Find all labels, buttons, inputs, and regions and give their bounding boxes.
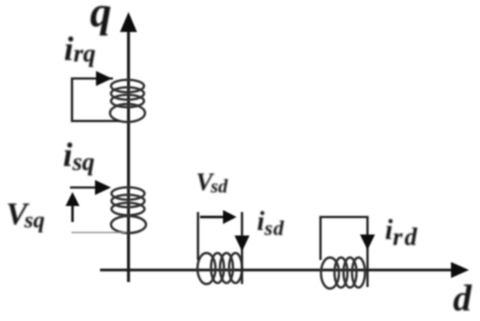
wire bracket around Lrq bbox=[72, 79, 120, 122]
inductor Lrd (coil on d-axis, rotor d winding) bbox=[321, 258, 365, 289]
inductor Lsq (coil on q-axis, stator q winding) bbox=[111, 187, 146, 233]
reference wire under Lsq bbox=[72, 232, 127, 234]
current arrow i_sq wire bbox=[70, 186, 98, 188]
inductor Lsd (coil on d-axis, stator d winding) bbox=[198, 253, 243, 284]
current arrowhead i_sq bbox=[95, 180, 111, 195]
current arrowhead i_rd (down) bbox=[360, 235, 375, 251]
svg-text:d: d bbox=[453, 279, 472, 320]
current arrowhead i_sd (down) bbox=[235, 236, 250, 252]
d-axis arrowhead bbox=[451, 262, 469, 278]
current arrow i_rq bbox=[96, 71, 112, 86]
wire bracket around Lrd bbox=[321, 217, 368, 287]
wire right of Lsd bbox=[241, 212, 243, 284]
q-axis arrowhead bbox=[120, 12, 137, 32]
wire left of Lsd bbox=[197, 212, 199, 260]
voltage arrow V_sd (right) bbox=[200, 216, 225, 218]
voltage arrow V_sq (up) bbox=[71, 203, 73, 222]
inductor Lrq (coil on q-axis, rotor q winding) bbox=[110, 80, 145, 122]
q-axis line bbox=[127, 28, 130, 282]
svg-text:q: q bbox=[90, 0, 112, 36]
d-axis line bbox=[100, 269, 456, 272]
